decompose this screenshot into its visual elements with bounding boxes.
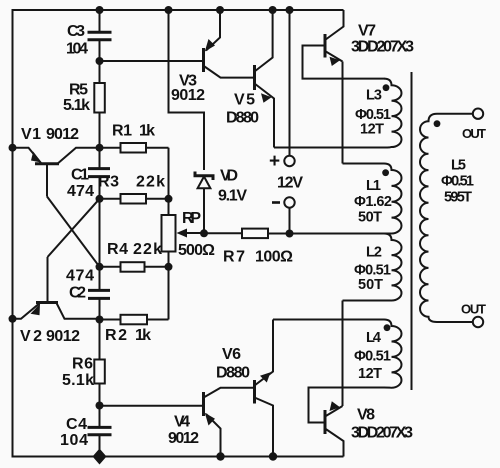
node top rail at x168	[165, 6, 173, 14]
svg-text:R5: R5	[69, 82, 88, 99]
wire V8 emitter up to L2 bottom	[342, 301, 344, 407]
svg-text:R4: R4	[107, 241, 128, 258]
svg-text:Φ0.51: Φ0.51	[354, 349, 391, 365]
svg-text:VD: VD	[220, 168, 238, 185]
resistor R2	[100, 319, 169, 321]
wire V5 emitter to L3 bottom	[274, 147, 385, 149]
svg-text:9.1V: 9.1V	[218, 188, 247, 205]
potentiometer RP body	[162, 215, 176, 252]
node R2/C2/V2-collector junction	[96, 316, 104, 324]
node V1 emitter on left rail	[9, 144, 17, 152]
svg-text:V8: V8	[357, 407, 375, 424]
svg-text:V5: V5	[234, 92, 255, 109]
wire R5 to node147	[99, 113, 101, 148]
node V4 emitter bottom rail	[216, 452, 224, 460]
transistor V6 base bar	[253, 380, 256, 404]
wire rail to VD (down, right, down)	[169, 10, 205, 170]
svg-text:5.1k: 5.1k	[63, 97, 90, 114]
svg-text:C2: C2	[69, 285, 86, 302]
wire R1 right to RP top	[168, 148, 170, 215]
wire V3 base line	[100, 60, 203, 62]
wire RP bottom to R2	[168, 252, 170, 320]
transistor V7 emitter	[325, 51, 343, 62]
svg-text:V6: V6	[222, 346, 241, 363]
svg-text:+: +	[269, 151, 280, 172]
transistor V5 collector	[255, 10, 273, 72]
wire V7 base loop to L3 top	[303, 46, 385, 79]
svg-text:474: 474	[66, 268, 94, 285]
transistor V1 emitter	[13, 148, 42, 163]
svg-text:104: 104	[60, 432, 88, 449]
transistor V2 emitter	[13, 303, 40, 319]
wire V1 base lead	[46, 165, 48, 197]
node top rail at V5 collector	[269, 6, 277, 14]
transformer core	[411, 72, 413, 390]
transistor V4 base bar	[202, 392, 205, 416]
resistor R1	[100, 147, 169, 149]
svg-text:3DD207X3: 3DD207X3	[351, 425, 413, 442]
svg-text:OUT: OUT	[462, 126, 486, 141]
node V6 collector bottom rail	[269, 452, 277, 460]
wire C3 to R5	[99, 41, 101, 83]
node R4/C2/V1-base junction	[96, 263, 104, 271]
svg-text:V4: V4	[174, 414, 190, 431]
svg-text:Φ1.62: Φ1.62	[354, 194, 392, 210]
transistor V1 base bar	[35, 162, 59, 165]
transistor V1 collector	[58, 148, 100, 164]
transistor V8 base bar	[324, 410, 327, 434]
terminal 12V plus circle	[284, 156, 294, 166]
transistor V6 emitter	[255, 320, 274, 386]
wire C2 to node320	[99, 299, 101, 319]
transistor V7 base bar	[324, 34, 327, 58]
transistor V5 emitter	[255, 84, 275, 148]
svg-text:104: 104	[66, 41, 88, 58]
terminal OUT bottom circle	[473, 317, 483, 327]
wire VD anode to center tap line	[203, 188, 205, 233]
wire 12V positive from rail	[289, 10, 291, 156]
svg-text:500Ω: 500Ω	[178, 242, 215, 259]
resistor R6	[94, 360, 105, 384]
transistor V7 collector	[325, 10, 344, 40]
transistor V8 emitter	[325, 406, 343, 417]
svg-text:R3: R3	[98, 174, 119, 191]
node R1/C1/V1-collector junction	[96, 144, 104, 152]
winding L1	[384, 164, 401, 234]
transistor V3 collector	[205, 67, 255, 78]
svg-text:C1: C1	[71, 167, 89, 184]
transistor V3 base bar	[202, 48, 205, 72]
svg-text:C3: C3	[67, 23, 85, 40]
svg-text:12V: 12V	[277, 175, 303, 192]
winding L3 polarity dot	[383, 84, 390, 91]
winding L5 polarity dot	[434, 120, 441, 127]
svg-text:9012: 9012	[171, 87, 205, 104]
wire center tap line to transformer	[268, 233, 385, 235]
wire left rail	[12, 9, 14, 458]
resistor R4	[100, 266, 169, 268]
node top rail at V3 emitter	[216, 6, 224, 14]
wire V6 emitter to L4 top	[273, 319, 385, 321]
wire V2 base lead	[47, 257, 49, 302]
svg-text:R7: R7	[223, 249, 245, 266]
transistor V4 collector	[205, 388, 255, 397]
transistor V3 emitter	[206, 10, 220, 51]
wire node406 to C4	[99, 406, 101, 427]
winding L4	[384, 320, 402, 388]
svg-text:C4: C4	[66, 416, 87, 433]
resistor R5	[94, 83, 105, 113]
wire V4 base line	[100, 405, 203, 407]
svg-text:22k: 22k	[133, 241, 162, 258]
svg-text:R2: R2	[105, 327, 127, 344]
transistor V8 collector	[325, 429, 344, 457]
terminal OUT top circle	[473, 109, 483, 119]
svg-text:L1: L1	[366, 178, 381, 194]
transistor V2 base bar	[36, 301, 58, 304]
winding L2	[384, 234, 402, 301]
svg-text:D880: D880	[216, 365, 250, 382]
wire node199 to node267	[99, 199, 101, 267]
label minus sign	[272, 201, 280, 204]
wire node147 to C1	[99, 148, 101, 168]
svg-text:9012: 9012	[168, 430, 199, 447]
svg-text:V7: V7	[358, 23, 376, 40]
wire V2 base to R3 node (diagonal)	[48, 199, 100, 257]
wire V1 base to R4 node (diagonal)	[47, 197, 100, 267]
terminal 12V minus circle	[284, 197, 294, 207]
node R3 right junction	[165, 195, 173, 203]
svg-text:595T: 595T	[444, 190, 472, 206]
wire V8 base loop to L4 bottom	[309, 388, 385, 423]
capacitor C3	[88, 32, 112, 39]
node R3/C1 junction	[96, 195, 104, 203]
node minus terminal wire junction	[286, 230, 294, 238]
node top rail at 12V positive wire	[286, 6, 294, 14]
svg-text:474: 474	[67, 183, 94, 200]
svg-text:1k: 1k	[135, 327, 151, 344]
wire center tap line left segment	[204, 232, 242, 234]
wire C4 to bottom rail	[99, 436, 101, 457]
winding L5 secondary	[420, 114, 473, 322]
svg-text:R1: R1	[112, 123, 132, 140]
svg-text:R6: R6	[72, 356, 93, 373]
svg-text:3DD207X3: 3DD207X3	[351, 39, 414, 56]
wire bottom rail	[13, 456, 344, 458]
svg-text:L4: L4	[366, 330, 381, 346]
potentiometer RP wiper arrow	[182, 232, 204, 234]
svg-text:9012: 9012	[46, 328, 80, 345]
winding L3	[384, 79, 402, 148]
transistor V2 collector	[57, 303, 100, 319]
svg-text:50T: 50T	[358, 210, 382, 226]
capacitor C2	[88, 290, 110, 298]
svg-text:OUT: OUT	[461, 302, 486, 317]
svg-text:D880: D880	[226, 110, 259, 127]
node top rail at C3	[96, 6, 104, 14]
resistor R3	[100, 198, 169, 200]
wire node267 to C2	[99, 267, 101, 290]
svg-text:22k: 22k	[136, 174, 165, 191]
zener diode VD	[195, 172, 213, 181]
svg-text:9012: 9012	[46, 126, 79, 143]
svg-text:L3: L3	[366, 88, 382, 104]
node R4 right junction	[165, 263, 173, 271]
svg-text:L5: L5	[451, 158, 466, 174]
svg-text:RP: RP	[182, 210, 201, 227]
svg-text:Φ0.51: Φ0.51	[441, 174, 474, 190]
wire L1 top lead	[343, 163, 385, 165]
wire C3 top lead	[99, 10, 101, 31]
svg-text:50T: 50T	[358, 277, 383, 293]
wire top supply rail	[13, 9, 344, 11]
transistor V4 emitter	[206, 414, 221, 457]
node VD/RP-wiper junction	[200, 229, 208, 237]
svg-text:12T: 12T	[360, 122, 384, 138]
resistor R7	[242, 229, 268, 239]
transistor V5 base bar	[253, 65, 256, 90]
svg-text:1k: 1k	[139, 123, 155, 140]
wire R6 to node406	[99, 384, 101, 406]
node R6/C4/V4-base junction	[96, 402, 104, 410]
wire V7 emitter down to L1 top	[342, 62, 344, 164]
node V2 emitter on left rail	[9, 315, 17, 323]
svg-text:5.1k: 5.1k	[62, 372, 94, 389]
wire node320 to R6	[99, 320, 101, 360]
svg-text:12T: 12T	[358, 366, 382, 382]
svg-text:V1: V1	[21, 126, 41, 143]
winding L4 polarity dot	[384, 324, 391, 331]
svg-text:100Ω: 100Ω	[255, 249, 293, 266]
wire C1 to node199	[99, 178, 101, 199]
winding L1 polarity dot	[382, 169, 389, 176]
wire L2 bottom lead	[343, 300, 385, 302]
capacitor C4	[88, 427, 112, 434]
transistor V6 collector	[255, 398, 274, 457]
node C4 bottom rail junction	[93, 449, 107, 465]
wire 12V minus to center tap	[289, 208, 291, 234]
node C3/R5/V3-base junction	[96, 57, 104, 65]
capacitor C1	[88, 169, 110, 177]
svg-text:L2: L2	[366, 245, 382, 261]
